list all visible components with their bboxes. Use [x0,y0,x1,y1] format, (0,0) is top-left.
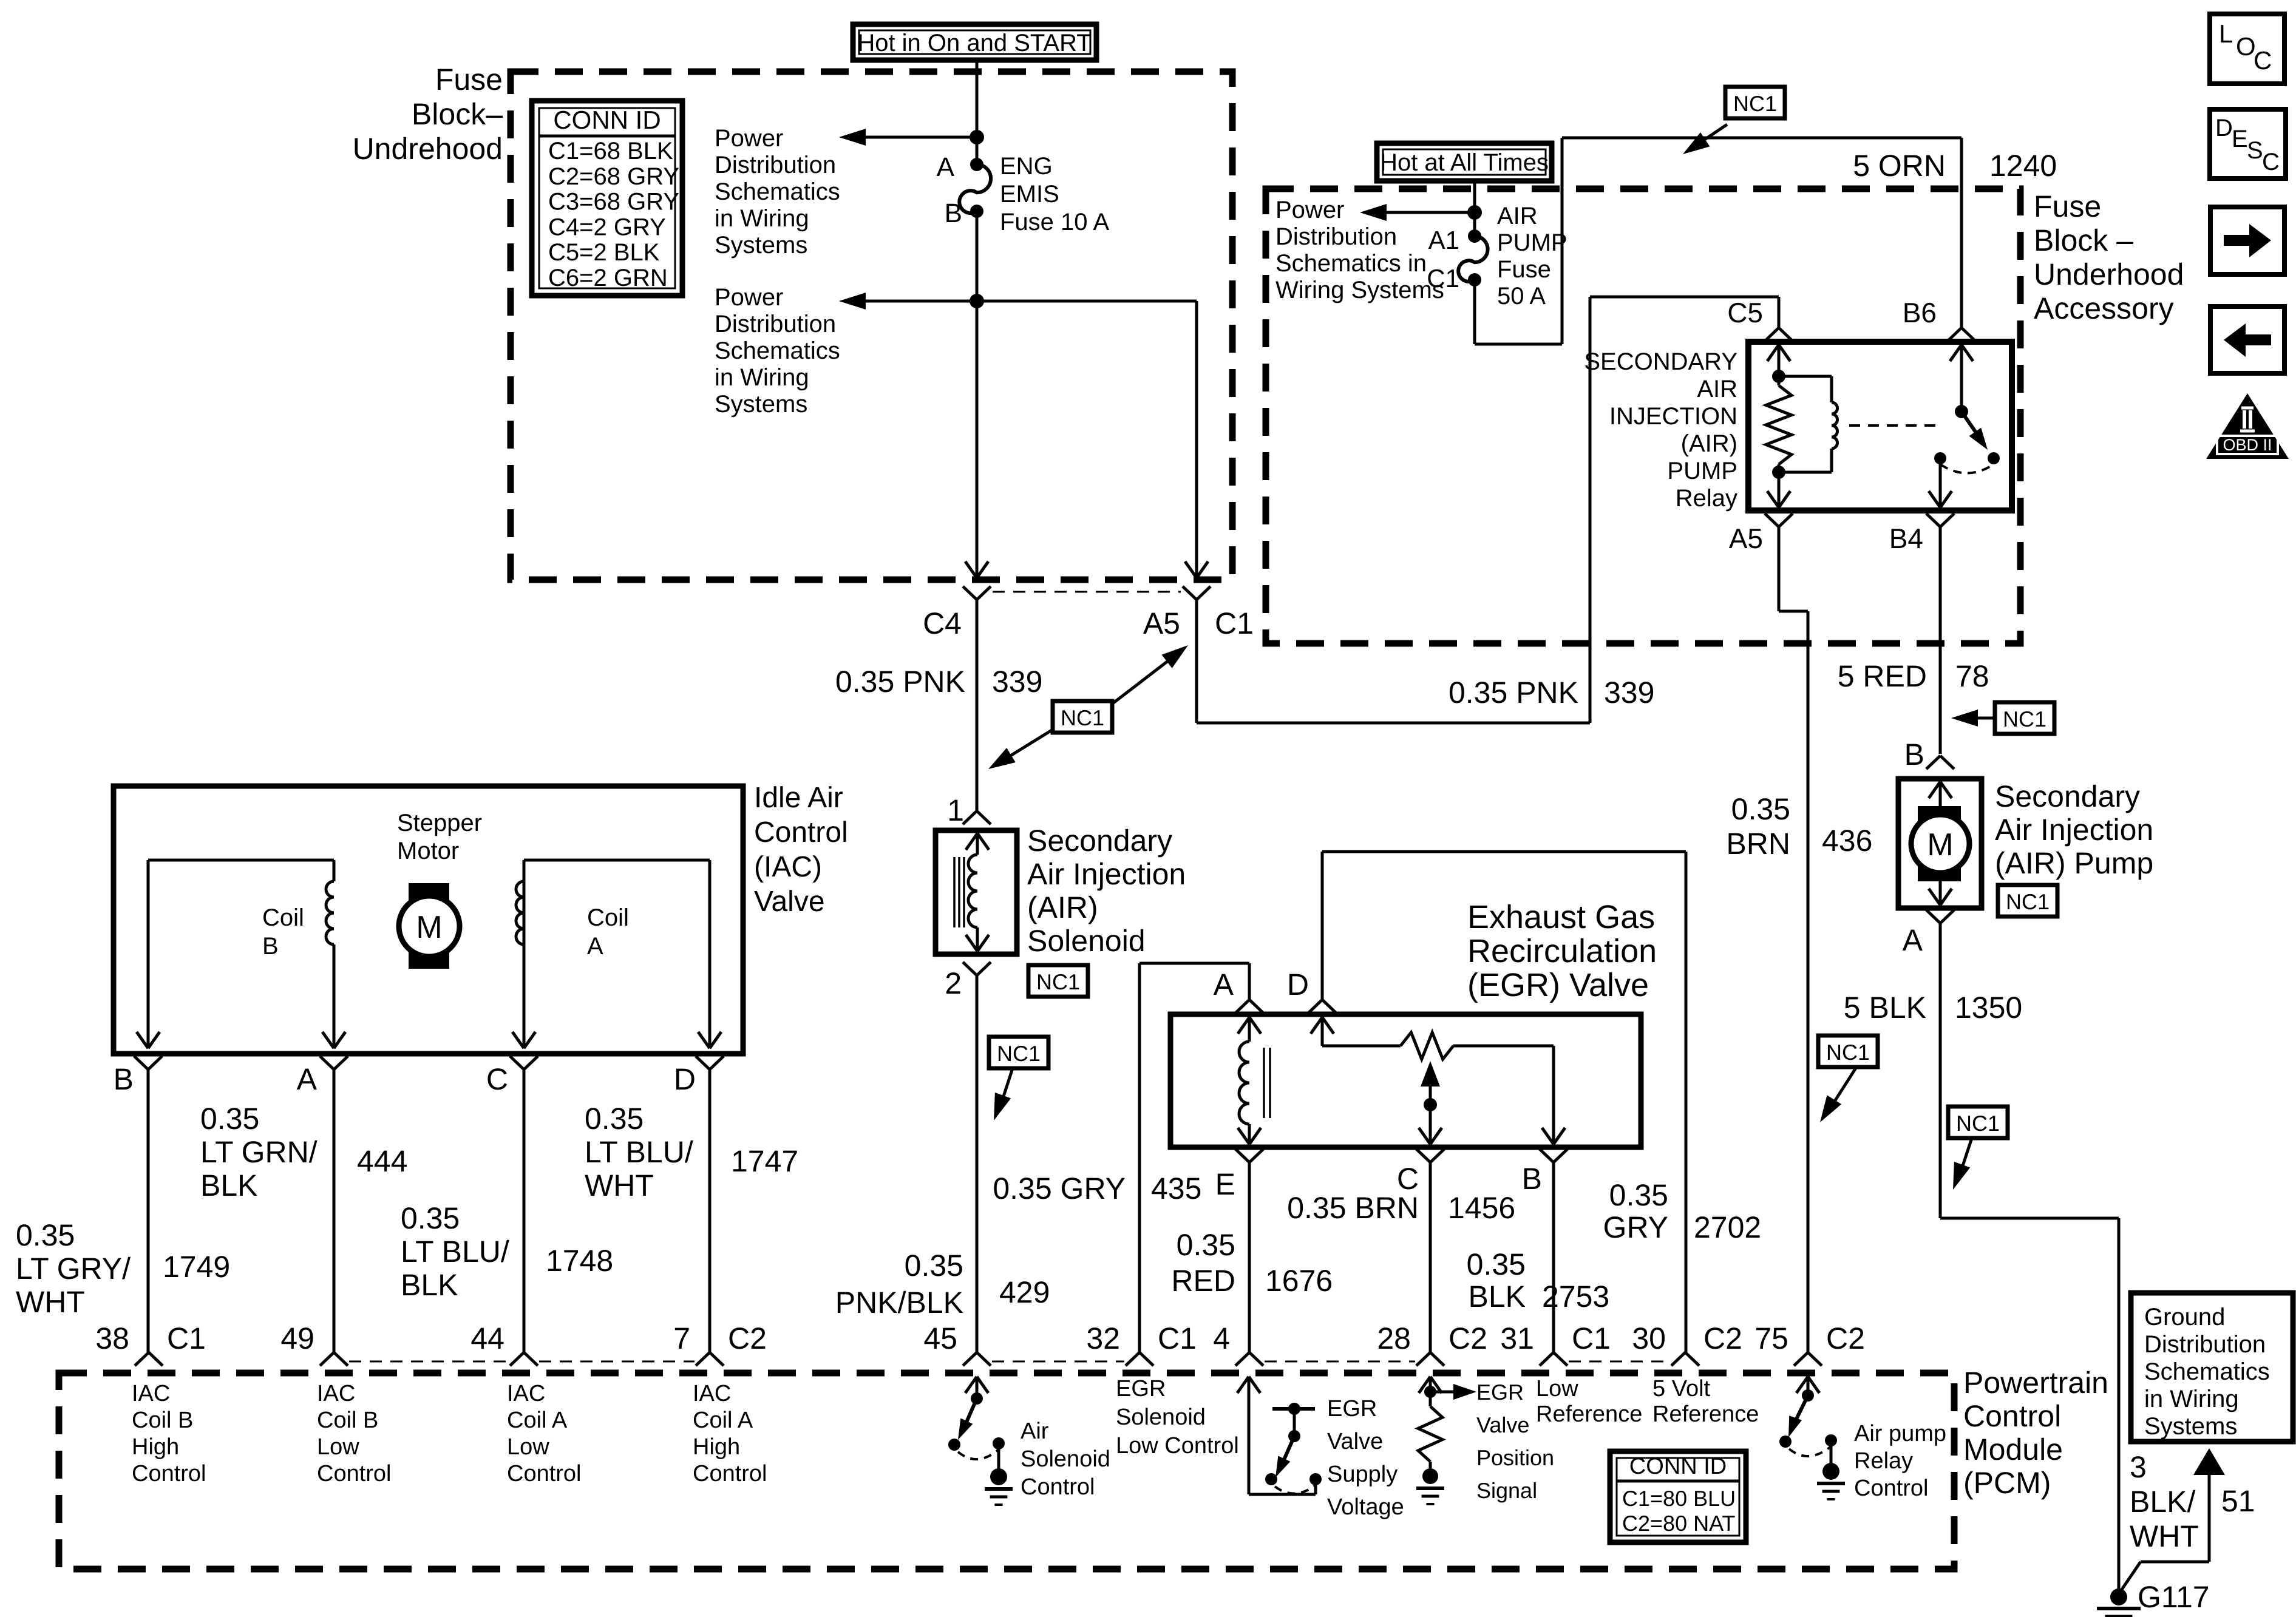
svg-text:High: High [693,1434,740,1460]
svg-text:(EGR) Valve: (EGR) Valve [1467,967,1649,1003]
svg-text:C4=2 GRY: C4=2 GRY [548,214,666,240]
label 0.35 BRN 1456 [1287,1191,1515,1225]
svg-text:Fuse: Fuse [2034,189,2101,223]
svg-text:AIR: AIR [1497,203,1538,229]
svg-text:Secondary: Secondary [1995,779,2140,813]
svg-text:Distribution: Distribution [715,311,836,337]
label 0.35 LT GRN BLK [200,1102,318,1202]
svg-text:C1: C1 [1158,1321,1197,1355]
iac coil A [512,860,721,1048]
node G117 ground dot [2110,1588,2127,1605]
svg-text:Hot in On and START: Hot in On and START [857,30,1091,56]
text exhaust gas recirculation valve [1467,899,1657,1003]
arrow to power distribution 3 [1360,204,1475,221]
wire egr C to pcm 28 [1429,1162,1432,1352]
relay dashed actuator link [1849,424,1943,427]
svg-text:Idle Air: Idle Air [754,782,843,814]
svg-text:Distribution: Distribution [2144,1331,2266,1358]
label 0.35 PNK-BLK [835,1249,963,1320]
svg-text:in Wiring: in Wiring [2144,1386,2239,1412]
svg-text:0.35 PNK: 0.35 PNK [835,665,965,699]
arrow into edge A5 [1185,561,1208,578]
svg-text:BLK/: BLK/ [2130,1485,2196,1519]
label 429 [999,1275,1050,1309]
svg-text:M: M [1927,827,1953,863]
wire egr E to pcm 4 [1248,1162,1251,1352]
svg-text:0.35: 0.35 [905,1249,963,1283]
label 0.35 BRN 436 [1726,792,1872,861]
connector A5 C1 [1143,586,1254,640]
pcm pin 44 connector [470,1321,538,1366]
svg-text:Block –: Block – [2034,223,2133,257]
connector A5 relay [1729,514,1793,554]
egr solenoid coil [1238,1017,1270,1144]
svg-text:Air: Air [1021,1419,1049,1444]
svg-text:0.35: 0.35 [1609,1178,1668,1212]
label powertrain control module [1963,1366,2108,1500]
pcm connector dashed link 45-32 [992,1361,1124,1363]
fuse AIR PUMP 50A [1427,226,1487,293]
pcm text egr valve position signal [1476,1380,1554,1503]
label 0.35 GRY 2702 [1603,1178,1762,1244]
svg-text:Schematics: Schematics [715,337,840,364]
svg-text:CONN ID: CONN ID [1629,1454,1727,1479]
connector D iac [674,1056,724,1096]
svg-text:Block–: Block– [412,97,503,131]
svg-text:Motor: Motor [397,838,459,864]
svg-text:EGR: EGR [1327,1396,1377,1422]
connector C iac [486,1056,538,1096]
svg-text:Control: Control [507,1461,582,1486]
svg-text:PNK/BLK: PNK/BLK [835,1286,963,1320]
label Fuse Block-Undrehood [353,63,503,166]
svg-text:0.35 PNK: 0.35 PNK [1449,676,1578,710]
svg-text:28: 28 [1377,1321,1411,1355]
svg-text:Power: Power [715,125,783,152]
label 0.35 LT GRY WHT [16,1218,131,1319]
pcm pin 49 connector [280,1321,348,1366]
svg-text:A: A [587,933,603,960]
pcm pin 75 connector [1754,1321,1865,1366]
label 444 [357,1144,407,1178]
svg-text:C1=68 BLK: C1=68 BLK [548,138,673,164]
idle air control valve box [114,786,743,1054]
svg-text:B: B [262,933,279,960]
arrow to power distribution 2 [839,293,977,310]
wire hot-start to fuse [976,60,979,164]
svg-text:D: D [674,1062,696,1096]
text secondary air injection pump relay [1584,348,1737,512]
svg-text:B6: B6 [1903,297,1937,328]
svg-text:Systems: Systems [715,232,807,259]
svg-text:Coil B: Coil B [317,1408,378,1433]
svg-text:78: 78 [1955,659,1989,693]
pcm egr supply switch [1237,1377,1322,1494]
connector A iac [297,1056,348,1096]
svg-text:C2: C2 [1826,1321,1865,1355]
svg-text:EMIS: EMIS [1000,181,1059,208]
label 0.35 PNK 339 (right) [1449,676,1654,710]
iac coil B [137,860,345,1048]
svg-text:31: 31 [1500,1321,1534,1355]
svg-text:C2=80 NAT: C2=80 NAT [1622,1511,1735,1536]
svg-text:ENG: ENG [1000,153,1053,180]
connector C5 [1727,297,1793,341]
text secondary air injection pump [1995,779,2153,880]
wire fuse to 5 ORN run [1475,138,1961,344]
label 1749 [163,1250,230,1284]
label 5 ORN 1240 [1853,149,2057,183]
svg-text:Undrehood: Undrehood [353,132,503,166]
wire EGR D to pcm 30 [1322,852,1686,1352]
svg-text:C2: C2 [1703,1321,1742,1355]
wire 51 to G117 [2119,1475,2209,1594]
svg-text:GRY: GRY [1603,1210,1668,1244]
svg-text:LT BLU/: LT BLU/ [401,1235,509,1269]
svg-text:Ground: Ground [2144,1304,2225,1331]
relay coil branch [1766,345,1838,507]
svg-text:LT GRN/: LT GRN/ [200,1135,318,1169]
pcm connector dashed link 49-44-7 [349,1361,695,1363]
svg-text:0.35: 0.35 [16,1218,75,1252]
label 0.35 PNK 339 (left) [835,665,1042,699]
svg-text:NC1: NC1 [2003,707,2046,731]
svg-text:(AIR): (AIR) [1681,430,1737,457]
nc1 tag top right [1683,87,1785,154]
svg-text:Underhood: Underhood [2034,257,2184,291]
svg-text:Valve: Valve [1476,1412,1529,1437]
pcm dashed box [59,1373,1954,1569]
svg-text:5 BLK: 5 BLK [1844,991,1926,1025]
svg-text:Recirculation: Recirculation [1467,933,1657,969]
svg-text:Accessory: Accessory [2034,291,2174,325]
svg-text:G117: G117 [2138,1580,2210,1614]
text stepper motor [397,810,482,864]
svg-text:Control: Control [1854,1476,1929,1501]
wire C4 to solenoid pin1 [976,600,979,811]
pcm text iac coil b low [317,1381,392,1486]
svg-text:(PCM): (PCM) [1963,1466,2051,1500]
svg-text:(IAC): (IAC) [754,851,822,883]
label 0.35 BLK 2753 [1467,1247,1610,1314]
svg-text:Voltage: Voltage [1327,1494,1404,1520]
connector 51 triangle [2193,1448,2225,1475]
svg-text:Air Injection: Air Injection [1027,857,1186,891]
svg-text:WHT: WHT [2130,1519,2199,1553]
ground distribution box [2131,1293,2293,1442]
label 5 BLK 1350 [1844,991,2022,1025]
svg-text:High: High [132,1434,179,1460]
wire hot to air pump fuse [1473,181,1476,236]
svg-text:Air Injection: Air Injection [1995,813,2153,847]
svg-text:BLK: BLK [401,1268,458,1302]
svg-text:S: S [2247,137,2263,164]
svg-text:Stepper: Stepper [397,810,482,836]
svg-text:Control: Control [754,816,848,849]
svg-text:4: 4 [1213,1321,1230,1355]
label 1748 [546,1244,613,1278]
svg-text:Wiring Systems: Wiring Systems [1275,277,1444,303]
text AIR PUMP Fuse 50 A [1497,203,1567,310]
pcm pin 32 connector [1086,1321,1197,1366]
svg-text:Distribution: Distribution [715,152,836,178]
svg-text:Coil: Coil [262,904,304,931]
wire iac B to pcm 38 [147,1070,150,1352]
svg-text:INJECTION: INJECTION [1609,403,1737,430]
svg-text:Control: Control [317,1461,392,1486]
svg-text:(AIR) Pump: (AIR) Pump [1995,846,2153,880]
text secondary air injection solenoid [1027,824,1186,958]
svg-text:0.35 BRN: 0.35 BRN [1287,1191,1419,1225]
label 5 RED 78 [1838,659,1989,693]
svg-text:0.35: 0.35 [401,1201,460,1235]
CONN ID table (fuse block) [532,101,682,296]
svg-text:OBD II: OBD II [2223,436,2272,454]
svg-text:Systems: Systems [2144,1413,2237,1440]
wire solenoid to pcm 45 [976,975,979,1352]
pcm text iac coil a high [693,1381,767,1486]
label 1747 [731,1144,798,1178]
text ground distribution schematics [2144,1304,2270,1440]
egr pot wiper [1419,1061,1442,1144]
svg-text:1749: 1749 [163,1250,230,1284]
pcm connector dashed link 4-28 [1265,1361,1415,1363]
label Fuse Block Underhood Accessory [2034,189,2184,325]
svg-text:50 A: 50 A [1497,283,1546,310]
svg-text:2: 2 [945,966,962,1000]
svg-text:IAC: IAC [317,1381,355,1406]
svg-text:C2: C2 [1449,1321,1487,1355]
svg-text:NC1: NC1 [2006,889,2050,914]
nc1 tag at solenoid [1028,965,1088,997]
pcm text egr valve supply voltage [1327,1396,1404,1520]
exhaust gas recirculation valve box [1170,1014,1641,1147]
arrow into edge C4 [965,561,988,578]
wire pump A to G117 [1940,923,2119,1590]
air pump motor [1911,782,1969,905]
wire iac C to pcm 44 [523,1070,526,1352]
svg-text:1676: 1676 [1265,1264,1333,1298]
air pump box [1898,779,1982,908]
pcm connector dashed link 31-30 [1569,1361,1670,1363]
text power distribution 3 [1275,197,1444,303]
svg-text:NC1: NC1 [1036,969,1080,994]
connector B egr [1522,1149,1567,1196]
svg-text:45: 45 [923,1321,957,1355]
svg-text:1456: 1456 [1448,1191,1515,1225]
svg-text:NC1: NC1 [1826,1040,1870,1065]
svg-text:A5: A5 [1729,523,1763,554]
svg-text:Schematics: Schematics [715,178,840,205]
pcm pin 38 connector [95,1321,206,1366]
svg-text:2702: 2702 [1694,1210,1761,1244]
label G117 [2138,1580,2210,1614]
svg-text:Control: Control [1963,1399,2061,1433]
connector B iac [114,1056,162,1096]
svg-text:A: A [1903,923,1923,957]
nc1 tag on blk wire [1948,1107,2008,1190]
svg-text:C2: C2 [728,1321,767,1355]
wire iac A to pcm 49 [333,1070,336,1352]
pcm pin 28 connector [1377,1321,1487,1366]
connector E egr [1215,1149,1263,1201]
wire relay A5 to PCM pin 75 [1779,527,1808,1352]
svg-text:Fuse: Fuse [1497,256,1551,283]
svg-text:429: 429 [999,1275,1050,1309]
svg-text:339: 339 [992,665,1042,699]
svg-text:Air pump: Air pump [1854,1421,1946,1446]
svg-text:SECONDARY: SECONDARY [1584,348,1737,375]
pcm pin 4 connector [1213,1321,1263,1366]
svg-text:O: O [2236,32,2256,61]
svg-text:E: E [2232,126,2248,152]
nc1 tag at pump [1998,885,2057,917]
svg-text:CONN ID: CONN ID [553,106,661,134]
svg-text:0.35: 0.35 [1177,1228,1235,1262]
svg-text:5 RED: 5 RED [1838,659,1927,693]
wire relay B4 to pump B [1939,527,1942,754]
connector D egr [1287,968,1336,1013]
svg-text:44: 44 [470,1321,504,1355]
pcm text egr solenoid low control [1116,1376,1239,1459]
svg-text:49: 49 [280,1321,314,1355]
svg-text:0.35: 0.35 [200,1102,259,1136]
nc1 tag with two arrows [988,645,1188,769]
svg-text:C1: C1 [1427,264,1459,293]
svg-text:PUMP: PUMP [1667,458,1737,484]
svg-text:IAC: IAC [693,1381,731,1406]
Hot in On and START box [853,24,1096,60]
svg-text:NC1: NC1 [1733,91,1777,116]
pcm text iac coil b high [132,1381,206,1486]
svg-text:RED: RED [1171,1264,1235,1298]
svg-text:A: A [937,152,955,182]
label 51 [2221,1484,2255,1518]
svg-text:Reference: Reference [1536,1402,1642,1427]
svg-text:WHT: WHT [585,1168,654,1202]
svg-text:1748: 1748 [546,1244,613,1278]
connector C4 [923,586,991,640]
svg-text:3: 3 [2130,1450,2147,1484]
svg-text:C3=68 GRY: C3=68 GRY [548,189,679,215]
svg-text:Low: Low [317,1434,359,1460]
text coil B [262,904,304,960]
node junction dot 2 [970,294,984,308]
svg-text:Fuse: Fuse [435,63,503,97]
svg-text:Power: Power [715,284,783,311]
arrow to power distribution 1 [839,129,977,146]
wire pcm32 to EGR A [1140,963,1249,1352]
connector B pump [1904,737,1954,771]
icon DESC box [2210,109,2286,178]
svg-text:C1: C1 [1572,1321,1611,1355]
svg-text:C6=2 GRN: C6=2 GRN [548,265,668,291]
svg-text:Reference: Reference [1652,1402,1759,1427]
svg-text:32: 32 [1086,1321,1120,1355]
svg-text:Control: Control [132,1461,206,1486]
icon OBD II triangle [2206,393,2289,459]
svg-text:A1: A1 [1428,226,1459,254]
pcm air pump relay driver switch [1779,1377,1845,1499]
svg-text:LT GRY/: LT GRY/ [16,1252,131,1286]
svg-text:51: 51 [2221,1484,2255,1518]
relay switch [1929,345,2000,507]
svg-text:Coil B: Coil B [132,1408,193,1433]
svg-text:LT BLU/: LT BLU/ [585,1135,693,1169]
svg-text:C: C [2254,46,2272,75]
svg-text:Powertrain: Powertrain [1963,1366,2108,1400]
svg-text:30: 30 [1632,1321,1666,1355]
fuse block accessory dashed box [1266,189,2020,643]
svg-text:0.35: 0.35 [585,1102,644,1136]
svg-text:B: B [1904,737,1924,771]
svg-text:1350: 1350 [1955,991,2022,1025]
svg-text:0.35: 0.35 [1731,792,1790,826]
text ENG EMIS Fuse 10 A [1000,153,1109,236]
nc1 tag on red wire [1951,702,2054,734]
wire fuse to C4 [976,211,979,578]
svg-text:435: 435 [1151,1171,1201,1205]
svg-text:NC1: NC1 [997,1041,1041,1066]
svg-text:C1: C1 [1215,606,1254,640]
connector C egr [1397,1149,1444,1196]
svg-text:D: D [1287,968,1309,1002]
svg-text:0.35: 0.35 [1467,1247,1526,1281]
svg-text:339: 339 [1604,676,1654,710]
svg-text:IAC: IAC [132,1381,170,1406]
label 0.35 RED 1676 [1171,1228,1333,1298]
svg-text:C1: C1 [167,1321,206,1355]
svg-text:B: B [114,1062,134,1096]
svg-text:1: 1 [947,793,964,827]
svg-text:NC1: NC1 [1061,705,1104,730]
svg-text:C5=2 BLK: C5=2 BLK [548,239,660,266]
svg-text:Low: Low [507,1434,549,1460]
wire A5 to relay C5 [1197,297,1779,723]
svg-text:C4: C4 [923,606,962,640]
svg-text:A: A [297,1062,318,1096]
svg-text:D: D [2215,115,2233,141]
nc1 tag on brn wire [1818,1036,1878,1122]
svg-text:EGR: EGR [1476,1380,1524,1405]
svg-text:Solenoid: Solenoid [1021,1446,1110,1472]
svg-text:in Wiring: in Wiring [715,205,809,232]
svg-text:B4: B4 [1889,523,1923,554]
svg-text:Valve: Valve [754,886,825,918]
svg-text:A: A [1214,968,1234,1002]
pcm pin 7 connector [673,1321,767,1366]
svg-text:Coil: Coil [587,904,629,931]
svg-text:Control: Control [1021,1474,1095,1500]
svg-text:444: 444 [357,1144,407,1178]
svg-text:Schematics: Schematics [2144,1358,2270,1385]
connector B6 [1903,297,1975,341]
svg-text:436: 436 [1822,824,1872,858]
svg-text:Low: Low [1536,1376,1578,1402]
svg-text:0.35 GRY: 0.35 GRY [993,1171,1126,1205]
svg-text:Secondary: Secondary [1027,824,1172,858]
svg-text:AIR: AIR [1697,376,1737,402]
label idle air control valve [754,782,848,918]
svg-text:IAC: IAC [507,1381,545,1406]
svg-text:1747: 1747 [731,1144,798,1178]
svg-text:C1=80 BLU: C1=80 BLU [1622,1486,1736,1511]
pcm pin 30 connector [1632,1321,1742,1366]
svg-text:E: E [1215,1167,1235,1201]
svg-text:Valve: Valve [1327,1429,1383,1454]
Hot at All Times box [1377,143,1552,181]
label 0.35 GRY 435 [993,1171,1201,1205]
